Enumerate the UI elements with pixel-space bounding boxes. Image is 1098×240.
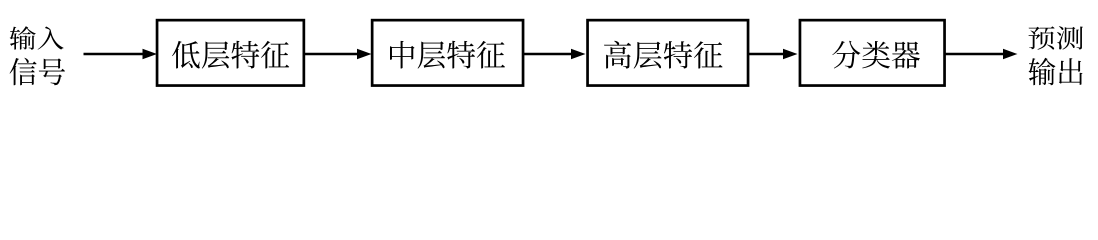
arrow box3 → box4 xyxy=(748,49,798,59)
arrow box2 → box3 xyxy=(523,49,586,59)
label "预测" (prediction) line 1 xyxy=(1028,26,1083,49)
text 低层特征 xyxy=(172,41,289,69)
box4 分类器 (classifier) xyxy=(800,20,945,85)
text 中层特征 xyxy=(390,41,505,69)
label "输出" (output) line 2 xyxy=(1029,58,1083,86)
text 高层特征 xyxy=(604,41,723,69)
arrow box1 → box2 xyxy=(303,49,372,59)
label "信号" (signal) line 2 xyxy=(10,58,65,86)
box3 高层特征 (high-level features) xyxy=(588,20,749,85)
label "输入" (input) line 1 xyxy=(10,26,64,49)
box1 低层特征 (low-level features) xyxy=(157,20,304,85)
arrow box4 → output xyxy=(945,49,1018,59)
box2 中层特征 (mid-level features) xyxy=(372,20,523,85)
text 分类器 xyxy=(832,41,920,69)
arrow input → box1 xyxy=(84,49,158,59)
